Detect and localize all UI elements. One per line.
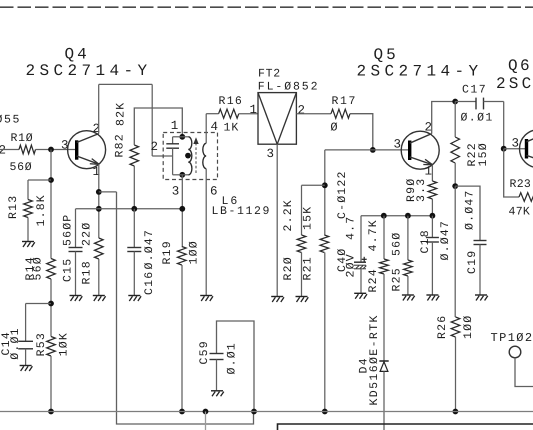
label 4.7 (C40 value) [345, 216, 358, 240]
wire C17 down to Q6 base [503, 102, 505, 149]
resistor R19 [178, 247, 187, 266]
label C40 [336, 248, 349, 272]
ground (C16) [128, 296, 141, 302]
transistor Q5 collector stroke [410, 134, 432, 144]
wire R14 to C14 node [50, 279, 52, 337]
pin label 2 (left edge) [0, 144, 6, 158]
svg-text:4: 4 [211, 120, 219, 134]
label 3.3 (R90 value) [415, 178, 428, 202]
wire rail down to R25 [407, 216, 409, 260]
ground (C18) [426, 295, 439, 301]
wire R22 to node [454, 163, 456, 186]
wire down to R20 [301, 185, 303, 235]
svg-text:R21: R21 [302, 256, 315, 280]
wire C14 tap [26, 303, 51, 305]
svg-text:1: 1 [171, 119, 179, 133]
label C19 [466, 250, 479, 274]
svg-text:R18: R18 [81, 260, 94, 284]
resistor R18 [95, 238, 104, 259]
wire R18 to ground [98, 259, 100, 295]
pin label 3 (L6) [172, 185, 180, 199]
wire Q5 emitter down [431, 165, 433, 181]
label R26 [436, 315, 449, 339]
svg-text:56Ø: 56Ø [10, 161, 33, 174]
transistor Q4 base bar [75, 140, 78, 159]
capacitor C15 [69, 248, 83, 252]
svg-text:3: 3 [394, 138, 402, 152]
label FT2 [258, 68, 281, 81]
label R24 [367, 268, 380, 292]
node emitter dot B [96, 206, 102, 212]
wire long vertical to bottom bus 2 [117, 192, 254, 424]
ground (R25) [402, 295, 415, 301]
wire down to R23 [504, 149, 519, 197]
svg-text:Q6: Q6 [508, 57, 532, 75]
wire down to C14 [25, 304, 27, 342]
label R10 [11, 132, 34, 145]
resistor R14 [47, 259, 56, 280]
label 4.7K (R24 value) [367, 219, 380, 251]
pin label 3 (Q5 base) [394, 138, 402, 152]
capacitor C18 [426, 238, 439, 243]
wire down to L6 pin 2 level [151, 84, 153, 156]
transistor Q5 emitter stroke with arrow [410, 157, 433, 165]
svg-text:R13: R13 [7, 195, 20, 219]
wire R16 to FT2 pin1 [239, 113, 258, 115]
wire collector top horizontal [99, 83, 153, 85]
wire emitter node to long vertical [99, 191, 117, 193]
pin label 3 (Q6 base) [512, 137, 520, 151]
label 0.047 (C16 value) [143, 229, 156, 270]
wire base node down to R14 [50, 150, 52, 259]
node C14 tap dot [48, 301, 54, 307]
label FL-0852 [258, 81, 320, 94]
wire down to C15 [75, 209, 77, 248]
node bus dot below R53 [48, 409, 54, 415]
capacitor C19 [474, 241, 487, 245]
svg-text:Ø.Ø1: Ø.Ø1 [9, 327, 22, 359]
label 1.8K (R13 value) [35, 194, 48, 226]
label 15K (R21 value) [302, 206, 315, 230]
svg-text:FT2: FT2 [258, 68, 281, 81]
svg-text:Q5: Q5 [374, 46, 399, 64]
ground (C19) [475, 295, 488, 301]
node bus dot below C59 [251, 409, 257, 415]
resistor R20 [297, 235, 306, 253]
pin label 2 (L6) [151, 140, 159, 154]
label TP102 [491, 331, 533, 345]
transistor Q5 base bar [408, 141, 411, 161]
label 560 (R25 value) [391, 232, 404, 256]
wire L6 pin6 to ground [205, 169, 207, 295]
label Q4 [65, 46, 90, 64]
label C14 [0, 331, 13, 355]
resistor R22 [451, 137, 460, 163]
label 560 (R14 value) [32, 256, 45, 280]
wire R10 to Q4 base [36, 149, 77, 151]
svg-text:Ø.Ø47: Ø.Ø47 [464, 189, 477, 230]
node emitter dot A [96, 189, 102, 195]
label Q5 [374, 46, 399, 64]
svg-text:KD516ØE-RTK: KD516ØE-RTK [368, 314, 381, 405]
ground (C15) [70, 296, 83, 302]
svg-text:R1Ø: R1Ø [11, 132, 34, 145]
resistor R24 [380, 259, 389, 274]
resistor R25 [404, 260, 413, 276]
label 0.01 (C14 value) [9, 327, 22, 359]
svg-text:Ø.Ø1: Ø.Ø1 [226, 342, 239, 374]
label C18 [419, 229, 432, 253]
svg-text:FL-Ø852: FL-Ø852 [258, 81, 320, 94]
transistor Q6 emitter stroke [527, 155, 533, 163]
label 150 (R22 value) [477, 142, 490, 166]
wire to R16 [206, 113, 218, 115]
label R21 [302, 256, 315, 280]
wire C59 to ground [216, 360, 218, 391]
svg-text:C15: C15 [62, 258, 75, 282]
svg-text:2: 2 [151, 140, 159, 154]
wire C40 to ground [360, 269, 362, 293]
label 0.047 (C19 value) [464, 189, 477, 230]
wire C15 to ground [75, 252, 77, 296]
svg-text:Ø.Ø47: Ø.Ø47 [439, 220, 452, 261]
label 2SC2714-Y (Q5) [357, 63, 483, 81]
label D4 [358, 357, 371, 373]
pin label 2 (Q4 collector) [93, 122, 101, 136]
label 20V (C40 rating) [345, 253, 358, 277]
node bus dot below R21 [322, 409, 328, 415]
node C17/R22 dot [452, 99, 458, 105]
L6 dashed enclosure [163, 133, 217, 180]
svg-text:C18: C18 [419, 229, 432, 253]
wire C14 to ground [25, 349, 27, 365]
resistor R82 [130, 145, 139, 166]
node rail dot R24 [381, 213, 387, 219]
resistor R10 [19, 145, 36, 154]
svg-text:2: 2 [0, 144, 6, 158]
svg-text:R24: R24 [367, 268, 380, 292]
wire ground bus (full width) [0, 411, 533, 413]
label 100 (R19 value) [188, 240, 201, 264]
capacitor C14 [18, 341, 33, 349]
wire R24 to D4 [383, 274, 385, 361]
transistor Q6 circle [520, 130, 533, 168]
inductor L6 secondary winding [203, 143, 206, 168]
wire input to R10 [0, 149, 19, 151]
label 55 (clipped part name) [0, 114, 21, 127]
wire Q6 base [504, 148, 527, 150]
top dashed border line [0, 6, 533, 8]
svg-text:1: 1 [250, 103, 258, 117]
pin label 4 (L6) [211, 120, 219, 134]
svg-text:47K: 47K [509, 206, 531, 219]
label C-0122 (C40 part) [336, 170, 349, 219]
resistor R53 [47, 337, 56, 357]
svg-text:R23: R23 [510, 178, 532, 191]
wire R21 to bus [324, 253, 326, 412]
svg-text:3: 3 [512, 137, 520, 151]
label 1K (R16 value) [224, 122, 240, 135]
svg-text:Ø.Ø47: Ø.Ø47 [143, 229, 156, 270]
transistor Q4 collector stroke [77, 134, 99, 143]
label 0 (R17 value) [330, 121, 337, 135]
label 0.01 (C17 value) [461, 112, 494, 125]
transistor Q5 circle [401, 131, 439, 169]
svg-text:C-Ø122: C-Ø122 [336, 170, 349, 219]
wire R13 to ground [27, 218, 29, 242]
pin label 3 (FT2) [267, 147, 275, 161]
svg-text:56ØP: 56ØP [62, 214, 75, 246]
node base junction dot [48, 147, 54, 153]
wire base node down [324, 150, 326, 235]
node Q6 base dot [501, 146, 507, 152]
ground (C14) [20, 366, 33, 372]
label R13 [7, 195, 20, 219]
node bus dot below R19 [179, 409, 185, 415]
svg-text:C16: C16 [143, 271, 156, 295]
svg-text:22Ø: 22Ø [81, 222, 94, 246]
resistor R90 [428, 181, 437, 199]
svg-text:3: 3 [172, 185, 180, 199]
transistor Q4 circle [68, 131, 106, 169]
wire C59 bracket [217, 321, 255, 412]
label R90 [405, 178, 418, 202]
svg-text:Q4: Q4 [65, 46, 90, 64]
resistor R16 [219, 109, 239, 118]
svg-text:15K: 15K [302, 206, 315, 230]
ground (C40) [354, 293, 367, 299]
pin label 1 (FT2) [250, 103, 258, 117]
wire R82 bottom to emitter rail [133, 166, 135, 209]
node rail dot C18 [430, 213, 436, 219]
wire FT2 pin3 down [276, 144, 278, 296]
wire R13 tap [28, 179, 51, 181]
test point TP102 circle [509, 346, 521, 358]
label C59 [198, 340, 211, 364]
label Q6 [508, 57, 532, 75]
svg-text:15Ø: 15Ø [477, 142, 490, 166]
L6 tuning arrow (dashed) [193, 137, 198, 173]
wire Q4 emitter down [98, 164, 100, 238]
resistor R23 [519, 193, 533, 202]
wire R19 to bus [181, 265, 183, 412]
svg-text:1K: 1K [224, 122, 240, 135]
label 560 (R10 value) [10, 161, 33, 174]
label 2.2K (R20 value) [282, 199, 295, 231]
node L6 primary bottom dot [179, 172, 185, 178]
capacitor C40 electrolytic [354, 257, 367, 269]
wire R20 to ground [301, 253, 303, 297]
ground (R13) [22, 242, 35, 248]
wire R26 to bus [455, 337, 457, 412]
wire rail down to C18 [431, 216, 433, 238]
wire C19 to ground [479, 245, 481, 295]
wire C16 to ground [133, 252, 135, 296]
wire to C19 [455, 186, 480, 240]
svg-text:LB-1129: LB-1129 [212, 205, 272, 218]
node L6 pin3 / R19 dot [179, 206, 185, 212]
label R22 [466, 142, 479, 166]
label KD5160E-RTK (D4 part) [368, 314, 381, 405]
svg-text:2SC2714-Y: 2SC2714-Y [357, 63, 483, 81]
wire R17 to Q5 base node [350, 114, 373, 150]
label 560P (C15 value) [62, 214, 75, 246]
svg-text:Ø55: Ø55 [0, 114, 21, 127]
svg-text:56Ø: 56Ø [32, 256, 45, 280]
svg-text:2ØV: 2ØV [345, 253, 358, 277]
wire down to C16 [133, 209, 135, 248]
svg-text:3.3: 3.3 [415, 178, 428, 202]
svg-text:4.7K: 4.7K [367, 219, 380, 251]
ground (FT2 pin 3) [271, 297, 284, 303]
svg-text:R16: R16 [219, 95, 244, 108]
label 220 (R18 value) [81, 222, 94, 246]
wire R90 to rail [431, 199, 433, 216]
node L6 pin1 dot [179, 134, 185, 140]
resistor R17 [331, 109, 350, 118]
node R20 tap dot [322, 182, 328, 188]
node Q5 base wire dot [370, 147, 376, 153]
svg-text:2: 2 [425, 121, 433, 135]
svg-text:4.7: 4.7 [345, 216, 358, 240]
transistor Q6 collector stroke [527, 132, 533, 142]
svg-text:C19: C19 [466, 250, 479, 274]
pin label 1 (Q4 emitter) [93, 165, 101, 179]
wire Q4 collector up [98, 84, 100, 133]
svg-text:3: 3 [267, 147, 275, 161]
node bus junction dot (x205) [203, 409, 209, 415]
svg-text:82K: 82K [115, 102, 128, 126]
ground (L6 pin 6) [200, 296, 213, 302]
wire R20 link [302, 184, 325, 186]
svg-text:1ØØ: 1ØØ [462, 315, 475, 339]
svg-text:C17: C17 [462, 84, 487, 97]
svg-text:2.2K: 2.2K [282, 199, 295, 231]
wire C17 node down to R22 [454, 102, 456, 138]
svg-text:R25: R25 [391, 267, 404, 291]
node bus dot below R26 [453, 409, 459, 415]
capacitor inside L6 (parallel resonant) [166, 137, 179, 175]
pin label 6 (L6) [210, 185, 218, 199]
transistor Q4 emitter stroke with arrow [77, 156, 99, 164]
svg-text:1ØK: 1ØK [58, 332, 71, 356]
resistor R26 [451, 317, 460, 337]
svg-text:3: 3 [61, 139, 69, 153]
wire R82 top to L6 pin1 [134, 108, 182, 145]
capacitor C16 [127, 248, 141, 252]
label 0.01 (C59 value) [226, 342, 239, 374]
label R23 [510, 178, 532, 191]
svg-text:R2Ø: R2Ø [282, 256, 295, 280]
node L6 primary centre tap dot [185, 153, 191, 159]
svg-text:2SC: 2SC [496, 75, 533, 93]
node R13 tap dot [48, 177, 54, 183]
diode D4 (zener) [379, 361, 388, 371]
label C17 [462, 84, 487, 97]
svg-text:R26: R26 [436, 315, 449, 339]
filter FT2 box [258, 93, 296, 145]
pin label 3 (Q4 base) [61, 139, 69, 153]
capacitor C59 [210, 354, 224, 360]
node R82/C16 dot [131, 206, 137, 212]
wire L6 primary top link [173, 136, 189, 138]
wire L6 pin3 down [181, 175, 183, 247]
capacitor C17 [455, 98, 504, 110]
svg-text:1.8K: 1.8K [35, 194, 48, 226]
svg-text:R53: R53 [35, 332, 48, 356]
pin label 1 (Q5 emitter) [425, 165, 433, 179]
wire lower bus right segment [278, 424, 533, 430]
label 0.047 (C18 value) [439, 220, 452, 261]
svg-text:1: 1 [425, 165, 433, 179]
ground (C59) [211, 391, 224, 397]
filter FT2 V symbol [258, 93, 296, 145]
wire stub below bus at x205 [205, 412, 207, 430]
ground (R20) [296, 297, 309, 303]
label LB-1129 [212, 205, 272, 218]
node rail dot R25 [405, 213, 411, 219]
wire down to R13 [27, 180, 29, 200]
svg-text:TP1Ø2: TP1Ø2 [491, 331, 533, 345]
label 2SC... (Q6, clipped) [496, 75, 533, 93]
pin label 2 (FT2) [298, 104, 306, 118]
label L6 [222, 195, 240, 208]
wire R53 to ground bus [50, 356, 52, 412]
svg-text:1ØØ: 1ØØ [188, 240, 201, 264]
wire L6 pin4 up to R16 [205, 114, 207, 144]
label 100 (R26 value) [462, 315, 475, 339]
wire TP102 to right edge [515, 358, 533, 387]
svg-text:R19: R19 [161, 240, 174, 264]
resistor R21 [320, 235, 329, 253]
wire rail down to R24 [383, 216, 385, 259]
ground (R18) [93, 296, 106, 302]
label R53 [35, 332, 48, 356]
svg-text:6: 6 [210, 185, 218, 199]
wire L6 primary bottom link [173, 174, 189, 176]
label R18 [81, 260, 94, 284]
wire D4 down off page [383, 371, 385, 430]
label R25 [391, 267, 404, 291]
wire emitter node rail [76, 208, 183, 210]
label 2SC2714-Y (Q4) [26, 62, 152, 80]
label 82K (R82 value) [115, 102, 128, 126]
resistor R13 [24, 200, 33, 218]
label R82 [114, 133, 127, 157]
wire FT2 pin2 to R17 [296, 113, 331, 115]
inductor L6 primary winding [188, 137, 192, 175]
wire Q5 base horizontal [325, 149, 410, 151]
label 47K (R23 value) [509, 206, 531, 219]
wire emitter decoupling rail [361, 215, 432, 217]
svg-text:2: 2 [298, 104, 306, 118]
pin label 2 (Q5 collector) [425, 121, 433, 135]
label R20 [282, 256, 295, 280]
transistor Q6 base bar [525, 139, 528, 159]
node R22/C19/R26 dot [452, 183, 458, 189]
svg-text:56Ø: 56Ø [391, 232, 404, 256]
svg-text:2SC2714-Y: 2SC2714-Y [26, 62, 152, 80]
label R17 [332, 95, 358, 108]
svg-text:C59: C59 [198, 340, 211, 364]
svg-text:R17: R17 [332, 95, 358, 108]
wire C18 to ground [431, 242, 433, 295]
svg-text:R82: R82 [114, 133, 127, 157]
label C16 [143, 271, 156, 295]
wire R25 to ground [407, 276, 409, 295]
wire rail down to C40 [360, 216, 362, 263]
svg-text:Ø: Ø [330, 121, 337, 135]
